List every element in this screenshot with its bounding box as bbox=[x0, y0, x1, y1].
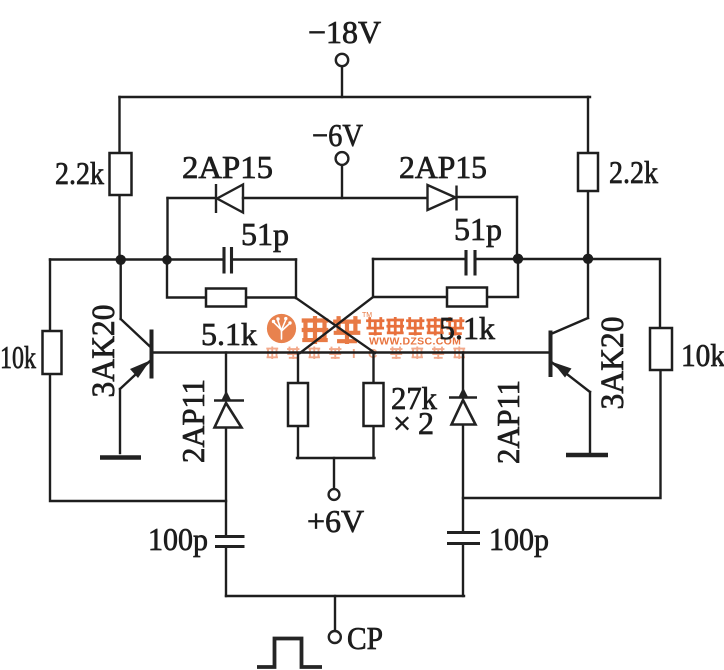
svg-text:5.1k: 5.1k bbox=[439, 310, 495, 346]
svg-text:3AK20: 3AK20 bbox=[595, 317, 631, 410]
svg-text:51p: 51p bbox=[454, 211, 502, 247]
svg-text:2.2k: 2.2k bbox=[609, 154, 658, 190]
svg-text:10k: 10k bbox=[0, 339, 36, 375]
svg-text:5.1k: 5.1k bbox=[201, 316, 257, 352]
svg-text:−6V: −6V bbox=[312, 117, 363, 153]
svg-text:10k: 10k bbox=[681, 337, 724, 373]
svg-text:2AP15: 2AP15 bbox=[182, 149, 273, 185]
svg-text:100p: 100p bbox=[148, 521, 208, 557]
svg-text:100p: 100p bbox=[489, 521, 549, 557]
svg-text:2AP11: 2AP11 bbox=[490, 380, 526, 464]
svg-text:+6V: +6V bbox=[307, 503, 364, 539]
svg-text:51p: 51p bbox=[241, 216, 289, 252]
svg-text:2.2k: 2.2k bbox=[55, 155, 104, 191]
svg-text:3AK20: 3AK20 bbox=[86, 305, 122, 398]
svg-text:2AP15: 2AP15 bbox=[399, 149, 487, 185]
svg-text:−18V: −18V bbox=[308, 14, 381, 50]
svg-text:CP: CP bbox=[347, 620, 383, 656]
svg-text:2AP11: 2AP11 bbox=[175, 379, 211, 463]
svg-text:×2: ×2 bbox=[393, 405, 441, 441]
